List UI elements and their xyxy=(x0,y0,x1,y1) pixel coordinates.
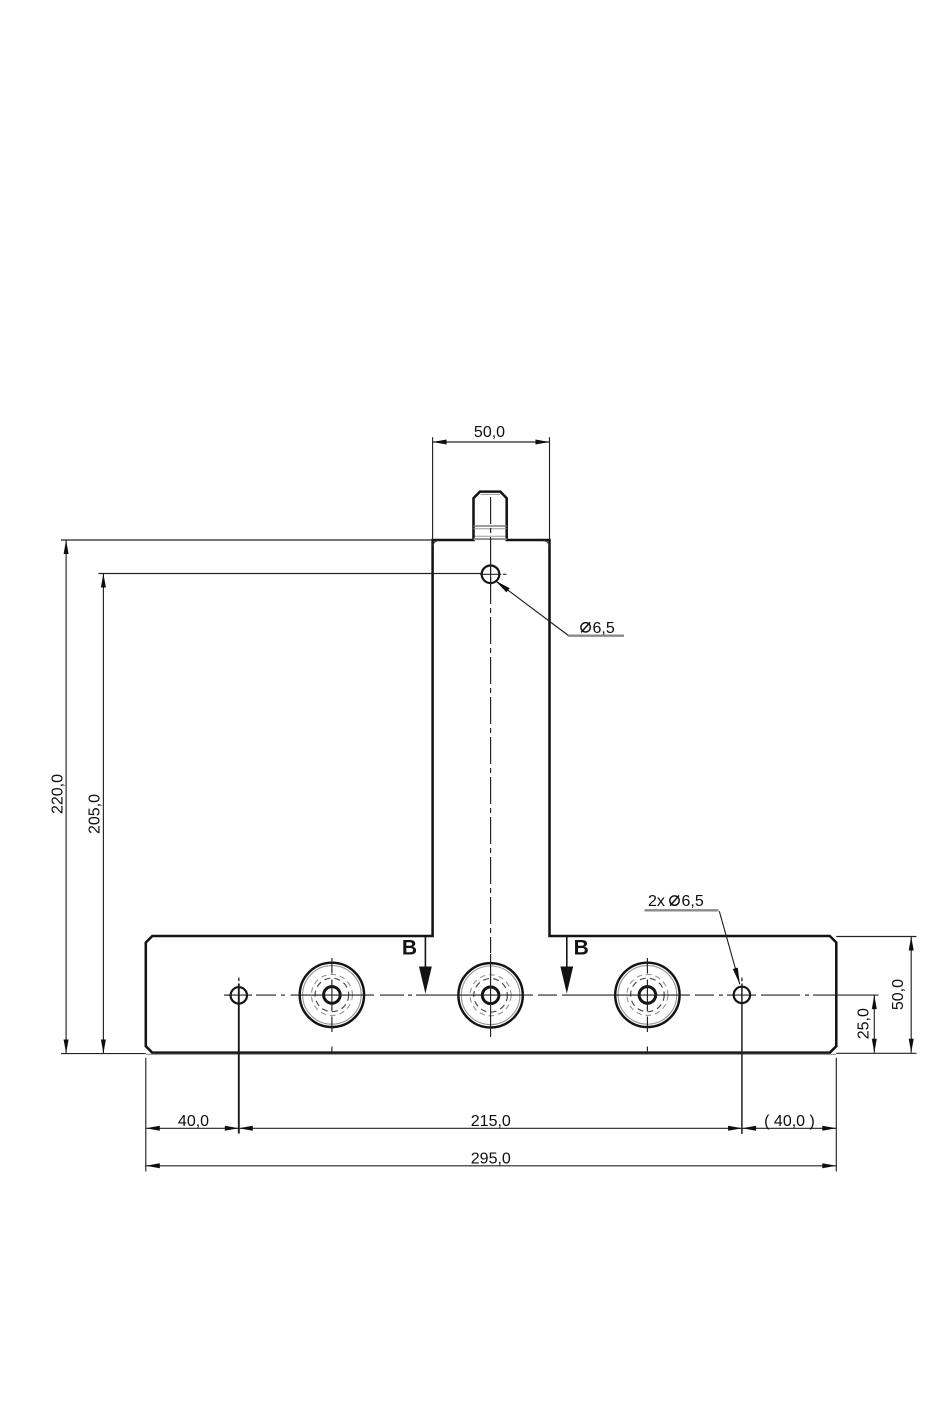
boss right: outer circle xyxy=(615,963,679,1027)
boss centre: thread dashed circle xyxy=(474,979,508,1013)
leader and label 2x d6,5 for small holes xyxy=(645,893,740,984)
svg-text:2x: 2x xyxy=(648,893,665,910)
svg-text:( 40,0 ): ( 40,0 ) xyxy=(764,1113,815,1130)
section arrow B (left) xyxy=(402,936,432,993)
right hole vertical centerline / extension xyxy=(741,984,743,1135)
svg-text:220,0: 220,0 xyxy=(49,774,66,814)
tab thread line 3 xyxy=(475,535,506,537)
fillet edge at stem top-left corner xyxy=(433,541,439,546)
top hole centerline dash right xyxy=(503,573,507,575)
svg-text:25,0: 25,0 xyxy=(856,1008,873,1039)
svg-text:50,0: 50,0 xyxy=(474,424,505,441)
svg-text:215,0: 215,0 xyxy=(471,1113,511,1130)
boss right: chamfer circle xyxy=(618,966,677,1025)
boss left: thread dashed circle xyxy=(315,978,349,1012)
svg-text:40,0: 40,0 xyxy=(178,1113,209,1130)
boss centre vertical centerline xyxy=(490,954,492,1037)
top hole circle (d6.5) xyxy=(482,566,500,584)
fillet edge at stem top-right corner xyxy=(544,541,550,546)
stem vertical centerline (dash-dot) xyxy=(490,497,492,953)
extension line below plate left edge xyxy=(145,1058,147,1172)
boss centre: bore circle xyxy=(482,987,499,1004)
boss right vertical centerline xyxy=(646,958,648,1053)
dimension row 40,0 / 215,0 / (40,0) xyxy=(146,1113,837,1131)
gray shadow line under base plate bottom edge xyxy=(146,1053,836,1055)
dimension 205,0 (left vertical to top hole) xyxy=(87,574,482,1054)
svg-text:50,0: 50,0 xyxy=(890,979,907,1010)
dimension 50,0 (stem width, top) xyxy=(433,424,550,540)
left small hole (d6.5) xyxy=(231,987,247,1003)
section arrow B (right) xyxy=(560,936,588,993)
dimension 50,0 (plate height, right) xyxy=(836,937,916,1054)
svg-text:B: B xyxy=(402,936,417,959)
tab thread line 2 xyxy=(474,528,507,530)
boss left: outer circle xyxy=(300,963,364,1027)
boss right: thread dashed circle xyxy=(631,978,665,1012)
stem centerline solid over top hole xyxy=(490,564,492,586)
right hole centre dot above xyxy=(741,978,743,982)
boss right: counterbore dashed circle xyxy=(627,974,668,1015)
leader and label d6,5 for top hole xyxy=(495,580,624,637)
dimension 295,0 (overall width) xyxy=(146,1150,837,1168)
svg-text:205,0: 205,0 xyxy=(87,794,104,834)
boss centre: counterbore dashed circle xyxy=(470,975,511,1016)
part outline: base plate with centre stem and threaded top tab xyxy=(146,492,837,1053)
boss centre: outer circle xyxy=(458,963,522,1027)
boss left: chamfer circle xyxy=(303,966,362,1025)
boss left: counterbore dashed circle xyxy=(311,974,352,1015)
boss left: bore circle xyxy=(324,987,341,1004)
dimension 220,0 (left vertical) xyxy=(49,540,432,1054)
dimension 25,0 (hole row height, right) xyxy=(856,995,877,1053)
svg-text:6,5: 6,5 xyxy=(593,620,615,637)
svg-text:295,0: 295,0 xyxy=(471,1150,511,1167)
tab thread root line xyxy=(474,538,507,540)
left hole vertical centerline / extension xyxy=(238,984,240,1134)
tab thread line 1 xyxy=(474,525,507,527)
boss left vertical centerline xyxy=(331,958,333,1053)
right small hole (d6.5) xyxy=(734,987,750,1003)
svg-text:6,5: 6,5 xyxy=(682,893,704,910)
left hole centre dot above xyxy=(238,978,240,982)
horizontal centerline through hole row (dash-dot) xyxy=(224,994,879,996)
svg-text:B: B xyxy=(574,936,589,959)
extension line below plate right edge xyxy=(835,1058,837,1172)
top hole crosshair horizontal xyxy=(480,573,501,575)
boss right: bore circle xyxy=(639,987,656,1004)
tab chamfer edge line xyxy=(481,493,501,495)
boss centre: chamfer circle xyxy=(461,966,520,1025)
